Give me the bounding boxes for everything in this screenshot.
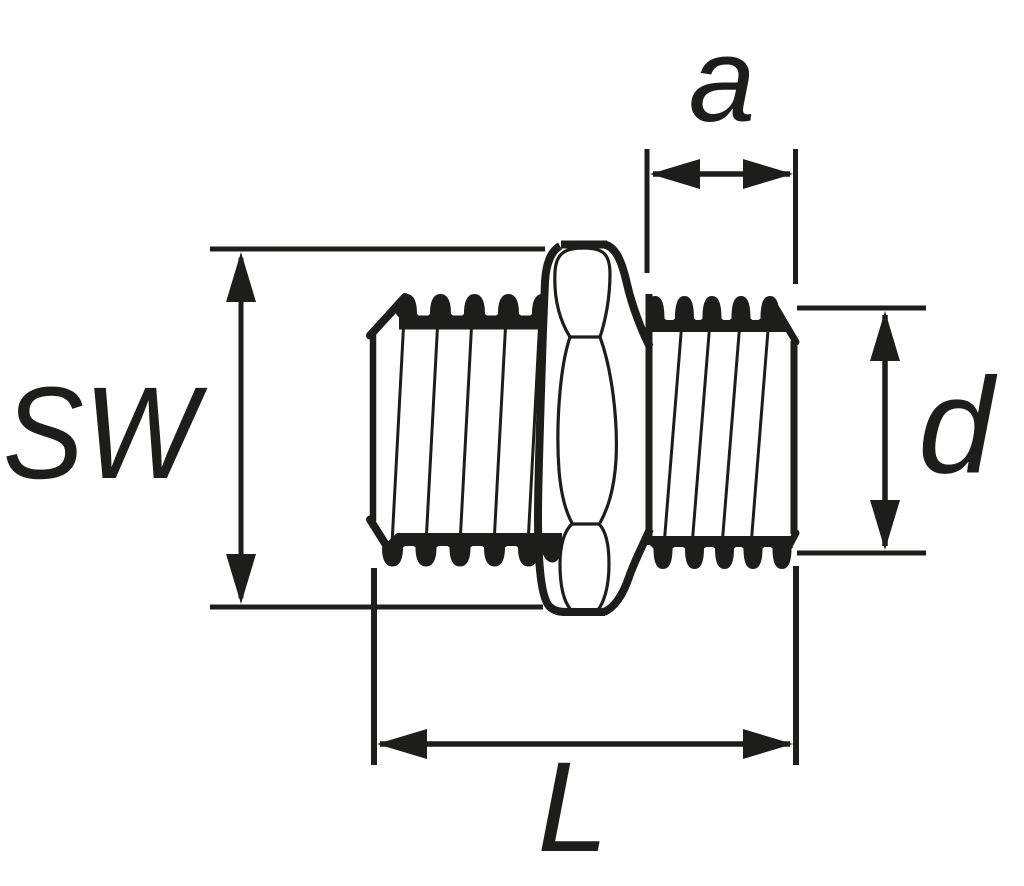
hex top flat xyxy=(561,241,607,249)
a arrowhead right xyxy=(743,159,793,189)
L right extension line xyxy=(793,566,799,765)
d arrowhead up xyxy=(870,311,900,361)
SW bottom extension line xyxy=(210,605,543,610)
hex bottom-right corner and flare xyxy=(604,529,650,612)
hex outer left silhouette xyxy=(538,246,567,612)
d top extension line xyxy=(797,306,926,311)
top crest wave xyxy=(646,296,792,332)
right bottom chamfer xyxy=(781,533,796,561)
svg-text:L: L xyxy=(537,736,608,879)
bottom facet egg xyxy=(560,524,609,610)
a arrow line xyxy=(653,171,790,177)
a arrowhead left xyxy=(650,159,700,189)
SW arrow line xyxy=(239,258,244,598)
hex bottom flat xyxy=(566,608,605,616)
barrel left arc xyxy=(558,337,572,523)
L arrowhead left xyxy=(377,729,427,759)
barrel right arc xyxy=(600,337,616,523)
d dimension xyxy=(797,308,926,553)
L dimension xyxy=(374,566,796,765)
d bottom extension line xyxy=(797,551,926,556)
svg-text:d: d xyxy=(918,350,998,502)
bottom crest wave xyxy=(382,533,569,567)
L arrow line xyxy=(380,741,790,747)
thread flank diagonals xyxy=(392,308,541,544)
left thread xyxy=(370,294,569,567)
left thread band merge at hex bottom-left xyxy=(541,533,562,563)
hex top-right corner and flare xyxy=(604,245,650,348)
d arrowhead down xyxy=(870,500,900,550)
SW arrowhead up xyxy=(226,252,256,302)
thread start edge xyxy=(646,294,653,545)
top chamfer xyxy=(370,297,405,336)
svg-text:a: a xyxy=(689,13,756,147)
top crest wave xyxy=(396,294,555,330)
d arrow line xyxy=(882,315,888,546)
SW dimension xyxy=(210,249,545,607)
bottom crest wave xyxy=(650,536,795,569)
SW arrowhead down xyxy=(226,554,256,604)
hex body fill xyxy=(538,245,652,613)
a right extension line xyxy=(793,149,798,284)
L arrowhead right xyxy=(743,729,793,759)
bottom chamfer xyxy=(370,520,391,554)
thread flank diagonals xyxy=(664,309,770,546)
SW top extension line xyxy=(210,247,545,252)
top facet egg xyxy=(555,248,610,337)
a dimension xyxy=(647,149,796,284)
right end edge xyxy=(791,341,798,534)
right top chamfer xyxy=(773,303,796,342)
right thread xyxy=(646,294,797,569)
svg-text:SW: SW xyxy=(3,359,208,506)
a left extension line xyxy=(645,149,650,273)
left end edge xyxy=(370,334,377,521)
L left extension line xyxy=(371,568,377,765)
